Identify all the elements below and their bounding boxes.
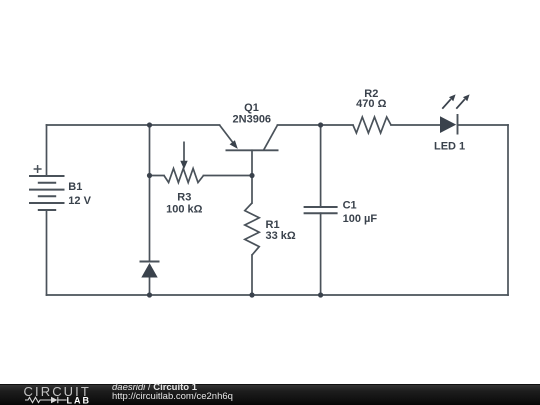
label R3 value	[166, 191, 203, 215]
svg-text:33 kΩ: 33 kΩ	[266, 230, 296, 242]
wire Q1 base down to node	[251, 150, 253, 175]
wire right rail	[507, 125, 509, 295]
svg-text:100 µF: 100 µF	[343, 213, 378, 225]
footer text	[112, 383, 233, 401]
svg-text:12 V: 12 V	[68, 195, 91, 207]
wire C1 top lead	[320, 125, 322, 207]
CircuitLab logo	[0, 385, 110, 405]
label R2 value	[356, 88, 386, 110]
svg-text:B1: B1	[68, 181, 82, 193]
label B1 value	[68, 181, 91, 207]
wire node branch x=150 (top rail down to diode)	[149, 125, 151, 262]
svg-text:100 kΩ: 100 kΩ	[166, 204, 203, 216]
svg-text:2N3906: 2N3906	[233, 114, 272, 126]
transistor Q1	[220, 125, 279, 150]
wire C1 bottom lead	[320, 213, 322, 295]
label R1 value	[266, 219, 296, 242]
resistor R2	[353, 117, 391, 133]
wire top rail left (battery + to Q1 emitter)	[47, 124, 220, 126]
svg-text:LED 1: LED 1	[434, 140, 465, 152]
diode D1	[140, 261, 160, 263]
label C1 value	[343, 200, 378, 226]
footer bar	[0, 384, 540, 405]
wire R1 bottom lead	[251, 255, 253, 295]
node bottom rail / R1	[249, 292, 254, 297]
node top rail / R3 branch	[147, 122, 152, 127]
resistor R1	[245, 203, 259, 255]
node top rail / C1 branch	[318, 122, 323, 127]
wire Q1 collector rail to R2	[278, 124, 354, 126]
wire bottom rail	[47, 294, 509, 296]
label Q1 value	[233, 102, 272, 126]
LED light arrow 1	[442, 99, 451, 109]
node bottom rail / C1	[318, 292, 323, 297]
wire R3 right lead to base node	[204, 175, 253, 177]
LED light arrow 2	[456, 99, 465, 109]
svg-text:R1: R1	[266, 219, 280, 231]
node R3 left / left branch	[147, 173, 152, 178]
capacitor C1	[304, 207, 338, 213]
wire left rail lower (battery - down to bottom rail)	[46, 210, 48, 295]
svg-text:LAB: LAB	[67, 395, 92, 405]
wire R1 top lead	[251, 176, 253, 204]
battery B1	[29, 165, 65, 210]
node base / R3 right / R1	[249, 173, 254, 178]
potentiometer R3	[164, 142, 204, 183]
wire R2 to LED	[391, 124, 440, 126]
wire left rail upper (battery + up)	[46, 125, 48, 176]
wire LED cathode to right rail	[458, 124, 509, 126]
svg-text:C1: C1	[343, 200, 357, 212]
LED LED1	[440, 116, 456, 133]
node bottom rail / diode	[147, 292, 152, 297]
wire diode anode to bottom rail	[149, 278, 151, 296]
svg-text:470 Ω: 470 Ω	[356, 98, 386, 110]
svg-text:Q1: Q1	[244, 102, 259, 114]
svg-text:R3: R3	[177, 191, 191, 203]
wire R3 left lead	[150, 175, 165, 177]
node junction dots	[147, 122, 323, 297]
